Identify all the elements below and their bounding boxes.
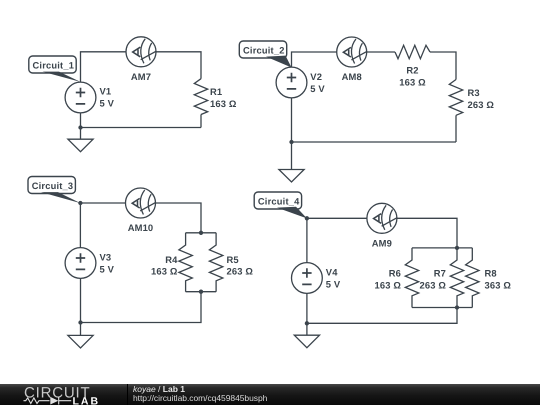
svg-text:R6: R6 [389,268,401,279]
voltage source V2 [276,67,307,98]
node junction top bus [199,231,203,235]
ground circuit 3 [68,335,93,348]
node junction circuit 1 [78,125,82,129]
node junction bottom bus [199,290,203,294]
svg-text:163 Ω: 163 Ω [399,76,426,87]
voltage source V1 [65,82,96,113]
svg-text:263 Ω: 263 Ω [419,279,446,290]
voltage source V3 [65,248,96,279]
ground circuit 2 [279,170,304,183]
wire: node to ammeter AM9 left [307,217,367,219]
node junction top bus circuit 4 [455,246,459,250]
svg-text:V1: V1 [100,86,112,97]
svg-text:AM7: AM7 [131,71,151,82]
wire: node to ammeter AM10 left [80,202,125,204]
wire: V1 bottom to ground node [80,113,82,139]
svg-text:AM10: AM10 [128,222,154,233]
wire: R3 bottom lead [455,115,457,142]
wire: bottom bus of R6 R7 R8 [412,307,472,309]
wire: node down to V3 top [79,203,81,248]
wire: AM9 right to parallel bank top [397,218,457,248]
wire: circuit 1 bottom return [81,127,202,129]
node label Circuit_1 callout [29,56,81,82]
node label Circuit_2 callout [239,41,291,68]
wire: bank bottom to circuit 4 bottom return [307,308,457,324]
resistor R7 with leads [450,248,463,308]
node label Circuit_4 callout [254,192,307,218]
svg-text:5 V: 5 V [310,83,325,94]
wire: AM7 right to R1 top [156,52,201,79]
svg-text:163 Ω: 163 Ω [151,266,178,277]
node junction bottom bus circuit 4 [455,305,459,309]
svg-text:V3: V3 [100,252,112,263]
node junction circuit 4 [305,321,309,325]
wire: V3 bottom to ground node [80,278,82,335]
svg-text:V2: V2 [310,71,322,82]
svg-text:R3: R3 [468,87,480,98]
svg-text:V4: V4 [326,267,338,278]
svg-text:5 V: 5 V [100,263,115,274]
wire: V2 bottom to ground node [291,98,293,170]
node A circuit 3 top-left [78,201,82,205]
ammeter AM7 [126,37,156,67]
resistor R1 [194,79,207,115]
svg-text:R4: R4 [165,254,178,265]
wire: AM8 right to R2 left lead [367,51,395,53]
wire: circuit 2 bottom return [292,141,457,143]
svg-text:R8: R8 [485,268,497,279]
svg-text:R7: R7 [434,268,446,279]
resistor R3 [449,80,462,116]
ammeter AM8 [337,37,367,67]
wire: V2 top to ammeter AM8 left (circuit 2 top-left corner) [292,52,337,67]
wire: V1 top to ammeter AM7 left (circuit 1 top-left corner) [81,52,126,82]
node junction circuit 3 [78,320,82,324]
resistor R8 with leads [466,248,479,308]
svg-text:LAB: LAB [73,395,101,405]
ammeter AM9 [367,203,397,233]
wire: top bus of R6 R7 R8 [412,247,472,249]
svg-text:Circuit_4: Circuit_4 [258,197,300,207]
node junction circuit 2 [289,140,293,144]
wire: bottom bus of R4 R5 [186,291,217,293]
svg-text:Circuit_1: Circuit_1 [33,61,75,71]
ground circuit 1 [68,139,93,152]
svg-text:Circuit_2: Circuit_2 [243,46,285,56]
wire: AM10 right to parallel bank top [156,203,202,233]
ground circuit 4 [294,335,319,348]
wire: top bus of R4 R5 [186,232,217,234]
voltage source V4 [292,263,323,294]
svg-text:363 Ω: 363 Ω [485,279,512,290]
svg-text:R5: R5 [227,254,239,265]
resistor R5 with leads [209,233,222,292]
svg-text:R1: R1 [210,86,222,97]
wire: V4 bottom to ground node [306,293,308,335]
svg-text:AM9: AM9 [372,237,392,248]
svg-text:Circuit_3: Circuit_3 [32,181,74,191]
svg-text:163 Ω: 163 Ω [210,98,237,109]
svg-text:AM8: AM8 [342,71,362,82]
wire: node down to V4 top [306,218,308,262]
svg-text:R2: R2 [406,65,418,76]
CircuitLab logo [0,384,127,405]
node A circuit 4 top-left [305,216,309,220]
svg-text:263 Ω: 263 Ω [468,99,495,110]
node label Circuit_3 callout [28,177,80,204]
resistor R2 [395,45,430,58]
resistor R6 with leads [405,248,418,308]
svg-text:263 Ω: 263 Ω [227,266,254,277]
svg-text:5 V: 5 V [326,278,341,289]
wire: R1 bottom lead [200,115,202,128]
svg-text:5 V: 5 V [100,98,115,109]
wire: bank bottom to circuit 3 bottom return [81,292,202,323]
ammeter AM10 [126,188,156,218]
wire: R2 right to R3 top [430,52,456,80]
svg-text:163 Ω: 163 Ω [374,279,401,290]
resistor R4 with leads [179,233,192,292]
